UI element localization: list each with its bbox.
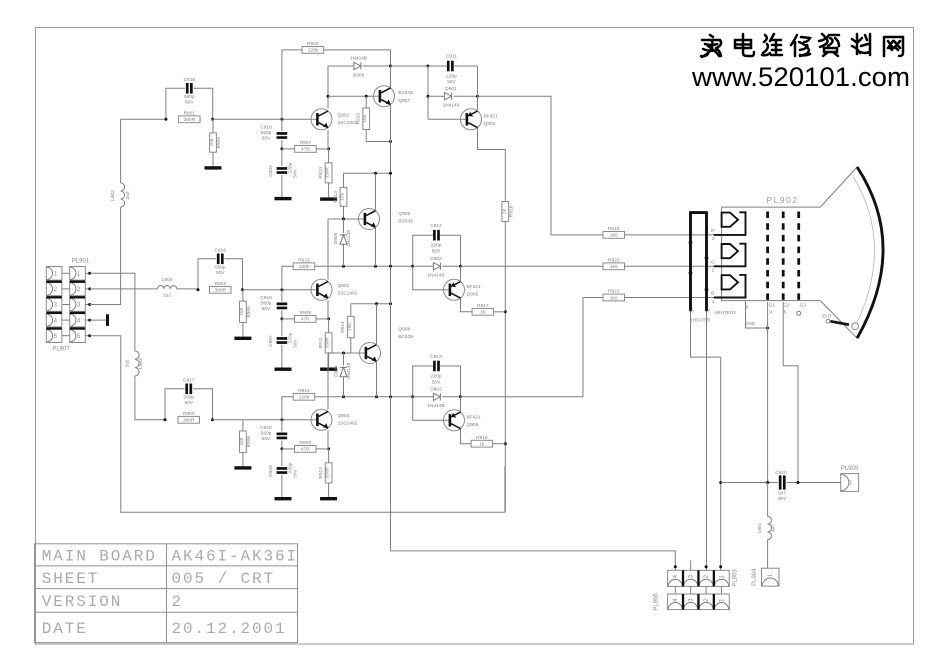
svg-text:2u2: 2u2 [125,191,131,199]
wire rail link y=303.7 [351,303,391,305]
svg-text:1N414B: 1N414B [427,403,444,409]
svg-text:1k8: 1k8 [239,308,245,316]
svg-text:R915: R915 [356,113,362,125]
wire pin5 down to bottom rail of amplifier box [90,336,505,513]
svg-text:330R: 330R [325,337,331,349]
wire Q901 emitter down [327,130,329,149]
wire rail link y=173.2 [344,172,391,174]
wire Q905 emitter up [460,266,462,281]
capacitor C919 560p [281,290,283,302]
svg-text:R903: R903 [183,411,195,417]
svg-text:560p: 560p [261,430,272,436]
wire R921 to CRT cathode KB [625,297,714,299]
svg-text:4u7: 4u7 [771,524,777,532]
wire input row to transistor Q903 [213,419,312,421]
svg-text:BC639: BC639 [398,218,413,224]
svg-text:PL903: PL903 [733,569,739,587]
wires through PL903/PL906 pins [674,586,676,609]
resistor R906 to ground [242,420,244,431]
wire G1/GND down to C910 [767,302,769,483]
diode D905 1N4148 vertical [343,219,345,233]
diode D904 1N4148 vertical [343,353,345,365]
svg-text:R902: R902 [215,281,227,287]
svg-text:MAIN BOARD: MAIN BOARD [42,547,157,565]
svg-text:47R: 47R [301,147,310,153]
svg-text:1N414B: 1N414B [427,273,444,279]
heater bend dots [689,241,693,245]
svg-text:6: 6 [691,309,694,315]
heater rail pin7 [705,212,708,311]
svg-text:C919: C919 [260,295,272,301]
svg-text:R908: R908 [300,310,312,316]
wire Q909 emitter down to main row [375,227,377,266]
wire Q909 base row [328,218,359,220]
svg-text:330R: 330R [325,167,331,179]
wire Q908 collector to rail link [376,304,378,345]
resistor R922 feedback 120k [282,50,302,119]
svg-text:47R: 47R [301,447,310,453]
resistor R904 to ground [212,119,214,133]
svg-text:C910: C910 [775,470,787,476]
svg-text:1N414B: 1N414B [350,56,367,62]
svg-text:D906: D906 [353,73,365,79]
svg-text:120k: 120k [299,395,310,401]
svg-text:PL905: PL905 [841,466,859,472]
svg-text:R911: R911 [318,337,324,348]
ground below C909 [275,497,292,500]
wire pin4 stub to blocking bar [90,319,106,321]
inductor L904 [157,286,176,289]
wire pin3 to L902 vertical [90,207,121,305]
svg-text:BF421: BF421 [484,113,498,119]
svg-text:C909: C909 [268,465,274,477]
svg-text:Q907: Q907 [398,98,410,104]
resistor R914 15k (Q908 base) [350,304,352,317]
svg-text:C917: C917 [183,377,195,383]
diode D901 1N4149 [427,66,429,119]
wire input row to transistor Q902 [243,289,312,291]
svg-text:120k: 120k [308,48,319,54]
ground below R912 [320,497,337,500]
svg-text:1k8: 1k8 [239,438,245,446]
wire Q903 collector up to Q908 base row [327,353,329,410]
svg-text:15k: 15k [340,192,346,200]
supply rail x=390.5 to PL903 [391,397,676,571]
wire Q902 emitter down [327,300,329,319]
svg-text:R910: R910 [318,167,324,179]
title block table [35,544,298,643]
svg-text:1: 1 [712,299,715,305]
resistor R915 15k [365,96,367,108]
svg-text:HEATER: HEATER [691,318,711,324]
svg-text:50v: 50v [292,340,298,348]
svg-text:G2: G2 [783,303,790,309]
svg-text:R920: R920 [608,257,620,263]
svg-text:C911: C911 [446,54,457,60]
svg-text:C913: C913 [430,354,442,360]
resistor R913 15k (Q909 base-emitter) [343,173,345,187]
svg-text:C907: C907 [268,335,274,347]
wire Q903 emitter down [327,430,329,449]
wire Q907 base row [328,95,374,97]
connector PL907 (left column pins 1-5) [46,267,62,281]
grid G2 dashed line [782,212,785,303]
svg-text:47R: 47R [301,317,310,323]
wire Q908 base row [328,352,360,354]
wire input row to transistor Q901 [213,118,311,120]
svg-text:R923: R923 [298,257,310,263]
svg-text:L903: L903 [138,358,144,369]
wire pin2 to L904 [90,288,158,290]
svg-text:R918: R918 [476,435,488,441]
svg-text:50V: 50V [185,99,194,105]
svg-text:R914: R914 [340,321,346,333]
transistor Q904 BF421 [428,118,461,120]
svg-text:R901: R901 [184,110,196,116]
svg-text:50V: 50V [262,135,271,141]
CRT funnel outline [820,167,857,207]
resistor R902 [210,286,232,293]
transistor Q908 BC639 [360,343,381,364]
svg-text:BF421: BF421 [467,284,481,290]
wire Q901 collector to Q907 base [327,66,329,109]
wire R920 to CRT cathode KG [625,265,714,267]
ground below R906 [234,466,251,469]
transistor Q901 2SC2482 [311,109,332,130]
svg-text:50V: 50V [447,79,456,85]
svg-text:BC639: BC639 [398,334,413,340]
svg-text:R924: R924 [298,388,310,394]
svg-text:BF421: BF421 [467,414,481,420]
svg-text:120k: 120k [299,264,310,270]
wire Q906 emitter up [460,397,462,412]
capacitor C909 220p [281,449,283,466]
resistor R923 120k [282,266,293,290]
resistor R907 47R [280,147,283,150]
svg-text:2: 2 [712,268,715,274]
svg-text:R905: R905 [246,306,252,318]
wire channel2 output row to R920 [461,265,604,267]
svg-text:R: R [711,228,715,234]
CRT socket outline [722,207,821,301]
svg-text:1k5: 1k5 [610,233,618,239]
svg-text:R909: R909 [300,440,312,446]
svg-text:50V: 50V [432,380,441,386]
svg-text:R917: R917 [477,303,489,309]
capacitor C918 560p [281,119,283,131]
capacitor C920 560p [281,420,283,432]
wire Q908 emitter down to main row [376,361,378,397]
svg-text:330R: 330R [325,467,331,479]
svg-text:AK46I-AK36I: AK46I-AK36I [172,547,299,565]
svg-text:R904: R904 [216,136,222,148]
svg-text:BC639: BC639 [398,90,413,96]
svg-text:2u2: 2u2 [125,359,131,367]
CRT gun cathode B [722,275,738,289]
wire Q909 collector link to rail [375,173,377,211]
svg-text:Q901: Q901 [338,112,350,118]
svg-text:Q904: Q904 [484,121,496,127]
svg-text:220p: 220p [431,243,442,249]
watermark chinese calligraphy 家电维修资料网 [701,34,903,57]
resistor R912 330R [328,449,330,463]
svg-text:C916: C916 [215,247,227,253]
transistor Q906 BF421 [413,397,444,421]
svg-text:R912: R912 [318,467,324,479]
resistor R919 1k5 [603,232,625,239]
CRT gun cathode G [722,244,738,258]
wire pin1 to L903 vertical [90,273,135,351]
svg-text:50V: 50V [184,400,193,406]
svg-text:C918: C918 [260,124,272,130]
wire heater pin6 jog down to PL903 pin1 [691,311,721,570]
wire Q902 collector up to Q909 base row [327,219,329,280]
svg-text:R913: R913 [333,191,339,203]
resistor R909 47R [280,447,283,450]
resistor R905 to ground [242,290,244,301]
svg-text:Q906: Q906 [467,422,479,428]
svg-text:1k8: 1k8 [209,138,215,146]
wires between connector columns and pin dots [62,272,70,274]
svg-text:www.520101.com: www.520101.com [691,62,910,92]
svg-text:50V: 50V [432,249,441,255]
ground below R904 [205,166,222,169]
capacitor C912 220p 50V [413,235,433,266]
svg-text:Q908: Q908 [398,327,410,333]
CRT screen arc (thick) [857,167,883,338]
svg-text:50V: 50V [216,270,225,276]
svg-text:390R: 390R [183,418,195,424]
transistor Q902 2SC2482 [311,279,332,300]
wire R919 to CRT cathode KR [625,234,714,236]
svg-text:4: 4 [770,309,773,315]
svg-text:R919: R919 [608,226,620,232]
svg-text:R907: R907 [300,140,312,146]
svg-text:D905: D905 [333,232,339,244]
inductor L902 [121,183,125,207]
wire Q904 collector to R916 [478,128,506,202]
grid G3 dashed line [797,212,800,303]
svg-text:Q909: Q909 [398,211,410,217]
capacitor C913 220p 50V [413,366,433,397]
svg-text:220p: 220p [446,74,457,80]
svg-text:50v: 50v [292,170,298,178]
svg-text:2SC2482: 2SC2482 [338,120,358,126]
svg-text:VERSION: VERSION [42,593,123,611]
heater top bar [689,211,707,214]
supply rail x=505.3 down to bottom corner [504,222,506,513]
svg-text:Q903: Q903 [338,413,350,419]
resistor R918 1k and wire to rail [461,429,472,444]
capacitor C911 220p 50V [391,65,429,67]
svg-text:L902: L902 [110,190,116,201]
diode D906 1N4148 [328,65,354,67]
resistor R910 330R [328,149,330,163]
ground below R910 [320,197,337,200]
svg-text:005 / CRT: 005 / CRT [172,570,276,588]
svg-text:1N4149: 1N4149 [443,103,460,109]
resistor R908 47R [280,317,283,320]
resistor R903 [178,416,200,423]
capacitor C917 (input parallel cap) [165,389,185,420]
resistor R916 1k [502,202,509,222]
svg-text:560p: 560p [184,94,195,100]
svg-text:G: G [711,259,715,265]
ground below C907 [275,368,292,371]
svg-text:C912: C912 [430,223,442,229]
svg-text:PL904: PL904 [752,568,758,586]
resistor R901 [179,116,201,123]
capacitor C907 220p [281,319,283,336]
svg-text:1N4148: 1N4148 [346,230,352,247]
svg-text:HEATER1: HEATER1 [714,310,736,316]
resistor R911 330R [328,319,330,333]
resistor R924 120k [282,397,293,420]
transistor Q909 BC639 [359,209,380,230]
CRT gun cathode R [722,213,738,227]
capacitor C916 (input parallel cap) [198,259,216,290]
svg-text:560p: 560p [215,264,226,270]
pin3 stub [690,561,692,571]
wire GND pin8 to G1 line [746,301,768,328]
wire channel3 output to R921 [461,298,604,397]
svg-text:B: B [711,291,714,297]
svg-text:R906: R906 [246,436,252,448]
svg-text:1N4148: 1N4148 [346,362,352,379]
transistor Q907 BC639 [374,86,395,107]
svg-text:SHEET: SHEET [42,570,100,588]
svg-text:C920: C920 [260,425,272,431]
svg-text:1k: 1k [480,310,486,316]
svg-text:2: 2 [172,593,184,611]
diode D902 1N4148 [411,265,414,268]
svg-text:Q902: Q902 [338,283,350,289]
svg-text:PL901: PL901 [72,259,90,265]
wire G2 jog down to C910 right [783,302,798,483]
svg-text:5: 5 [784,309,787,315]
svg-text:R916: R916 [508,205,514,217]
svg-text:D903: D903 [430,387,442,393]
svg-text:390R: 390R [215,288,227,294]
ground below R911 [320,368,337,371]
wire Q904 emitter to D901/C911 [477,66,479,96]
ground below C905 [275,197,292,200]
resistor R920 1k5 [603,263,625,270]
svg-text:220p: 220p [431,374,442,380]
svg-text:D901: D901 [445,86,457,92]
svg-text:C915: C915 [184,77,196,83]
svg-text:1k: 1k [501,208,507,214]
svg-text:PL907: PL907 [52,347,70,353]
svg-text:50V: 50V [262,306,271,312]
connector PL901 (right column pins 1-5) [70,267,86,281]
svg-text:GND: GND [745,321,756,327]
grid G1 dashed line [766,212,769,303]
capacitor C905 220p [281,149,283,166]
svg-text:R922: R922 [307,41,319,47]
svg-text:3: 3 [712,236,715,242]
svg-text:15k: 15k [362,114,368,122]
heater rail pin6 [689,212,692,312]
svg-text:7: 7 [708,309,711,315]
CRT inner screen arc [853,177,874,328]
svg-text:1k: 1k [479,442,485,448]
svg-text:560p: 560p [261,130,272,136]
black bar at pin4 [106,314,109,326]
capacitor C915 (input parallel cap) [166,88,185,119]
svg-text:2SC2482: 2SC2482 [338,420,358,426]
transistor Q903 2SC2482 [311,409,332,430]
svg-text:390R: 390R [184,117,196,123]
svg-text:2SC2482: 2SC2482 [338,290,358,296]
svg-text:2n7: 2n7 [778,491,786,497]
svg-text:C905: C905 [268,165,274,177]
svg-text:EHT: EHT [822,313,832,319]
transistor Q905 BF421 [413,266,444,290]
svg-text:DATE: DATE [42,620,88,638]
inductor L901 4u7 [767,483,769,517]
resistor R921 1k5 [603,294,625,301]
diode D903 1N4148 [411,395,414,398]
wire channel1 output to R919 [478,96,604,235]
svg-text:Q905: Q905 [467,291,479,297]
svg-text:G1: G1 [769,303,776,309]
svg-text:PL906: PL906 [654,593,660,611]
capacitor C910 2n7 3kV [721,482,778,484]
svg-text:G3: G3 [800,303,807,309]
svg-text:R921: R921 [608,289,620,295]
resistor R917 1k and wire to rail [461,298,473,312]
svg-text:3kV: 3kV [778,496,787,502]
svg-text:L904: L904 [162,277,173,283]
wire Q907 collector/emitter rail x=390.5 [390,66,392,88]
wire heater pin7 down to PL903 pin2 [706,311,708,570]
svg-text:1k5: 1k5 [610,295,618,301]
svg-text:D904: D904 [333,365,339,377]
G3 open pin circle [797,311,801,315]
ground below R905 [234,337,251,340]
svg-text:50V: 50V [262,436,271,442]
svg-text:560p: 560p [261,300,272,306]
svg-text:20.12.2001: 20.12.2001 [172,620,287,638]
svg-text:2u2: 2u2 [163,292,171,298]
svg-text:PL902: PL902 [766,195,798,205]
svg-text:D902: D902 [430,256,442,262]
svg-text:50v: 50v [292,470,298,478]
svg-text:1k5: 1k5 [610,264,618,270]
inductor L903 [135,351,139,376]
svg-text:560p: 560p [183,394,194,400]
svg-text:L901: L901 [757,522,763,533]
svg-text:15k: 15k [347,323,353,331]
